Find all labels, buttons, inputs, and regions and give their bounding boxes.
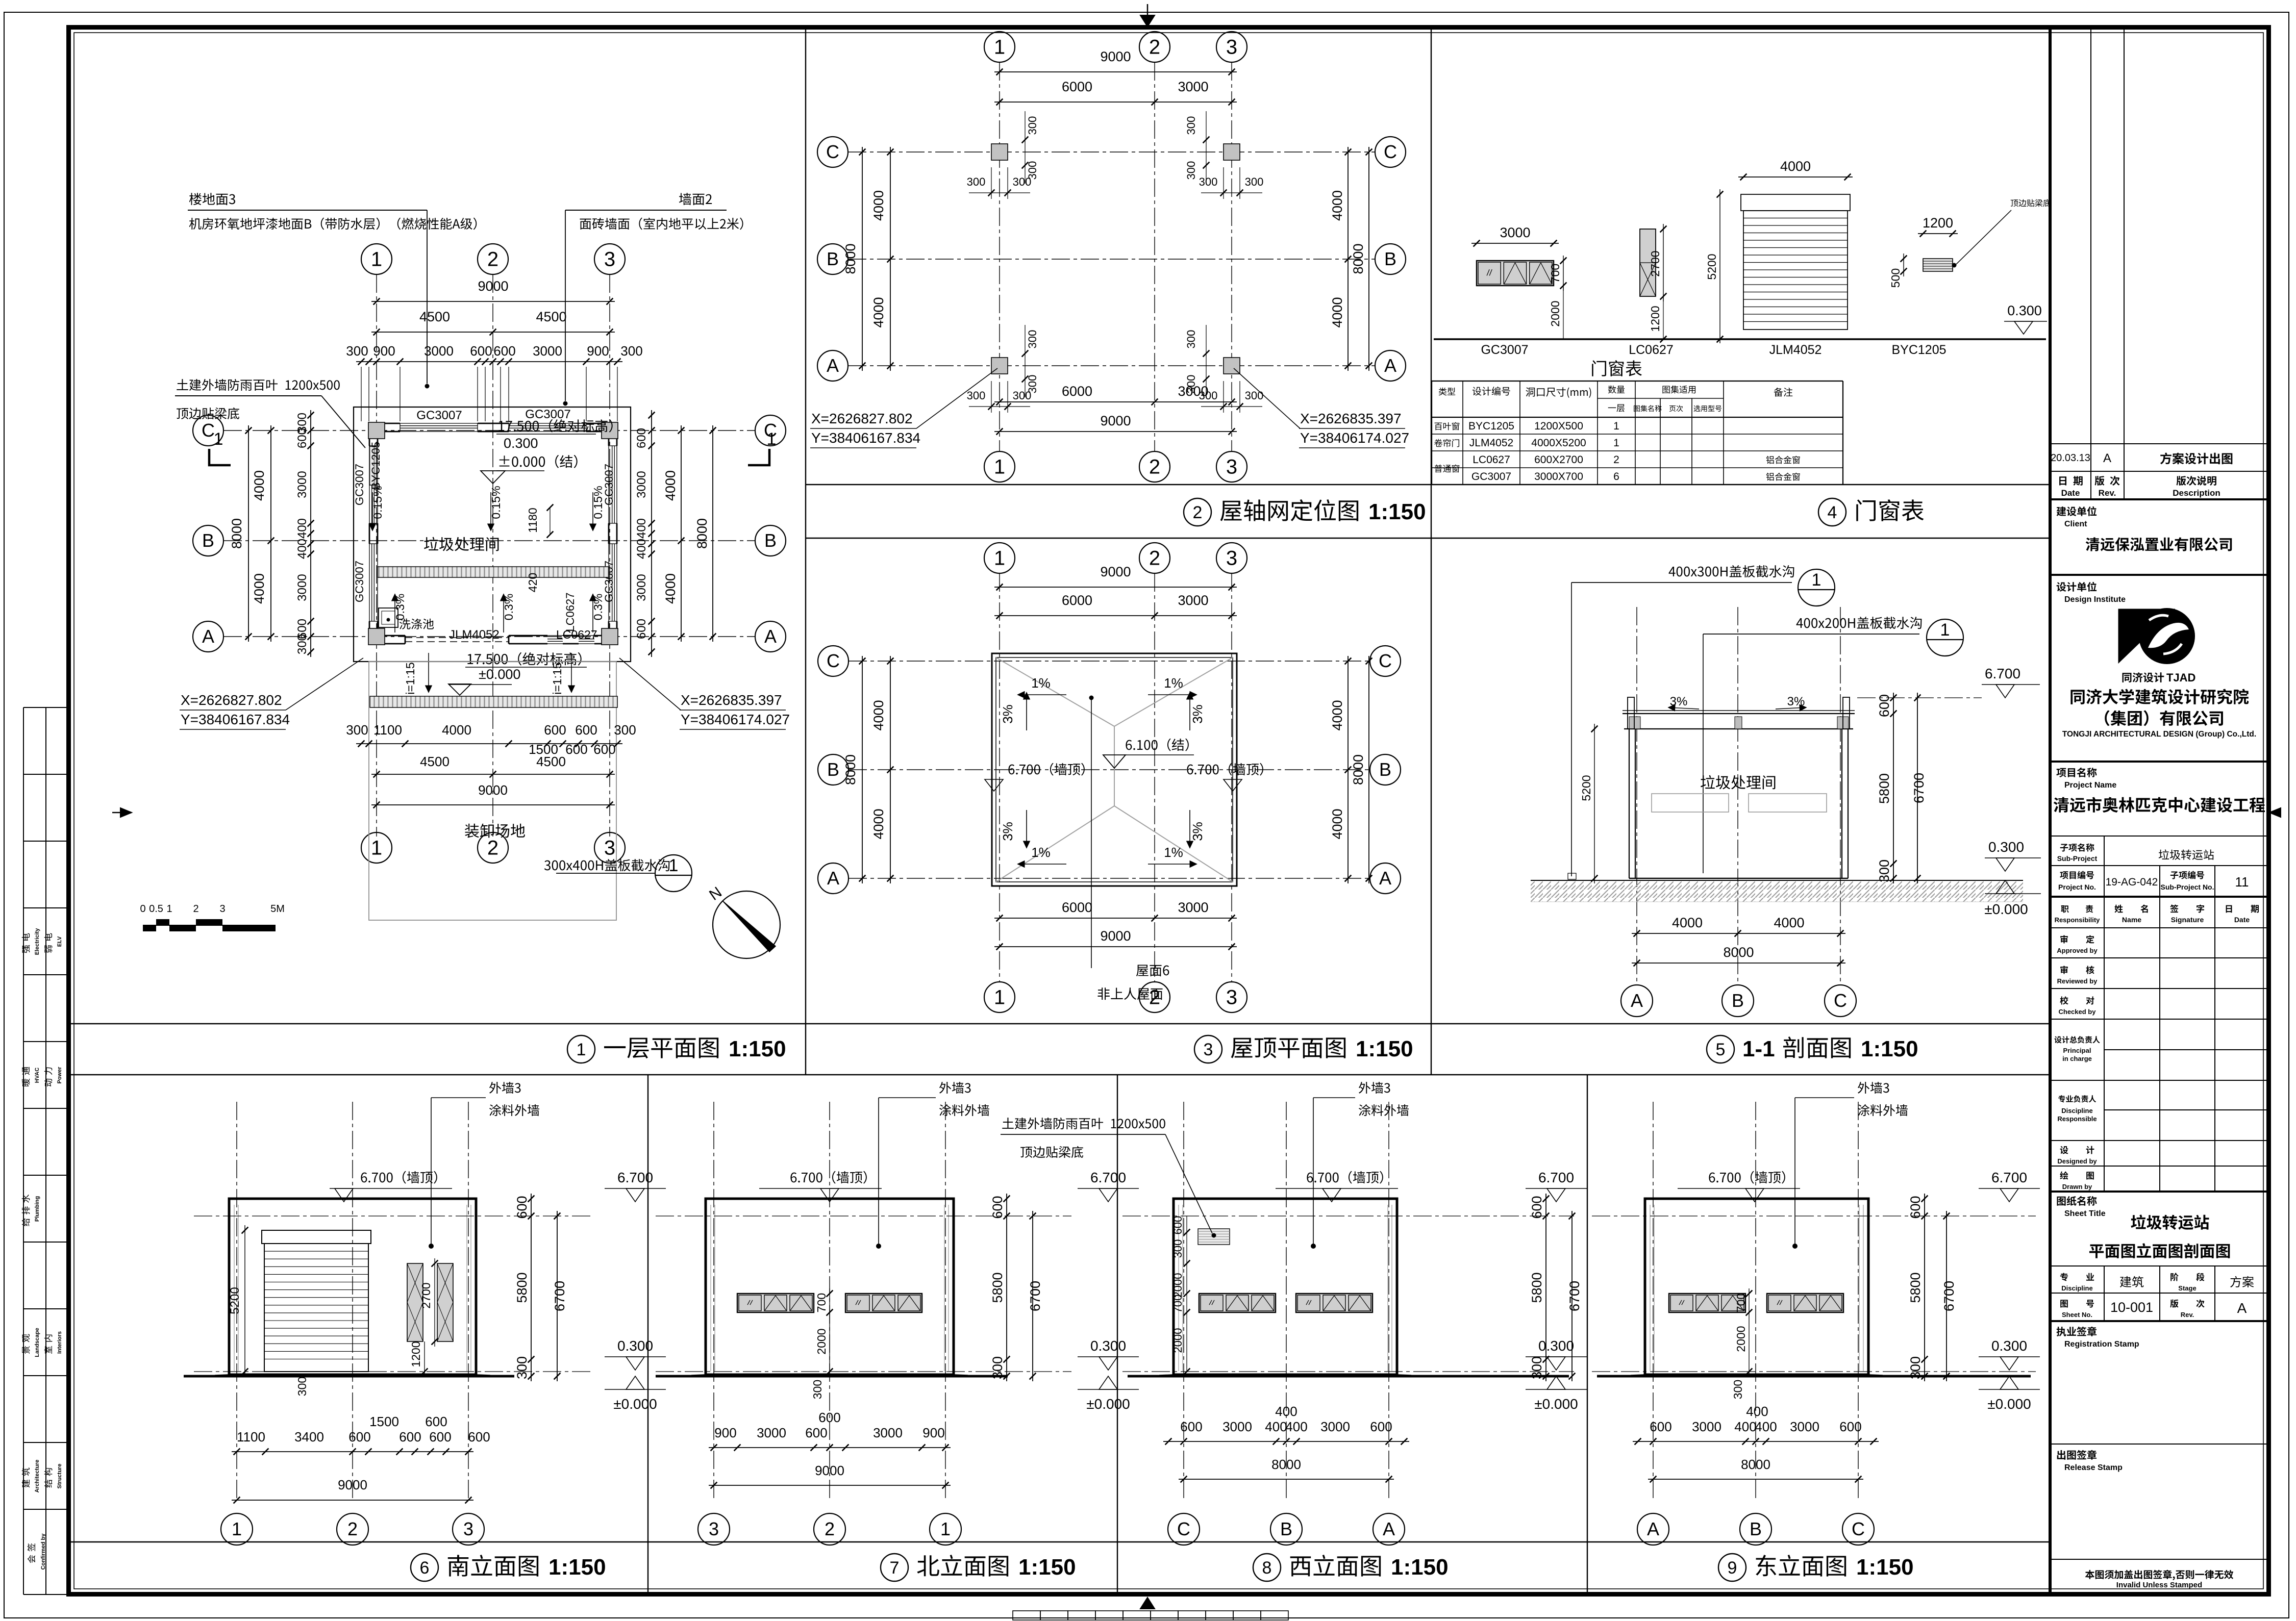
svg-text:600: 600 (805, 1425, 827, 1440)
svg-text:6000: 6000 (1062, 79, 1092, 94)
svg-text:3400: 3400 (294, 1429, 324, 1445)
svg-text:600: 600 (468, 1429, 490, 1445)
svg-text:Interiors: Interiors (57, 1331, 63, 1354)
svg-text:Landscape: Landscape (34, 1328, 40, 1357)
svg-text:Structure: Structure (57, 1464, 63, 1489)
svg-text:8000: 8000 (843, 754, 858, 785)
svg-text:B: B (202, 530, 214, 551)
svg-text:11: 11 (2235, 874, 2249, 890)
svg-text:B: B (1379, 759, 1391, 780)
svg-text:8000: 8000 (1723, 945, 1754, 960)
svg-text:4000: 4000 (1672, 915, 1703, 930)
svg-text:2: 2 (487, 837, 498, 859)
svg-text:4000: 4000 (1780, 159, 1811, 174)
svg-text:Design Institute: Design Institute (2064, 595, 2126, 604)
svg-text:JLM4052: JLM4052 (1469, 437, 1513, 449)
svg-text:9000: 9000 (478, 782, 508, 798)
svg-text:4000: 4000 (663, 573, 678, 604)
svg-text:3000: 3000 (757, 1425, 786, 1440)
svg-text:6: 6 (420, 1558, 430, 1578)
svg-text:300: 300 (811, 1380, 824, 1399)
svg-text:1%: 1% (1164, 845, 1183, 860)
svg-text:3: 3 (1226, 456, 1237, 478)
svg-text:300: 300 (614, 722, 636, 738)
svg-text:600: 600 (348, 1429, 370, 1445)
svg-text:HVAC: HVAC (34, 1068, 40, 1083)
svg-text:6700: 6700 (1567, 1281, 1582, 1311)
svg-text:Signature: Signature (2171, 916, 2204, 924)
svg-text:0.300: 0.300 (617, 1338, 653, 1354)
svg-text:Approved by: Approved by (2057, 947, 2098, 954)
svg-text:2000: 2000 (1734, 1326, 1748, 1352)
svg-text:Y=38406174.027: Y=38406174.027 (1300, 430, 1409, 446)
svg-text:8000: 8000 (843, 243, 858, 274)
svg-text:6: 6 (1613, 471, 1619, 483)
svg-text:4000: 4000 (663, 470, 678, 501)
svg-text:1: 1 (1613, 437, 1619, 449)
svg-text:Release Stamp: Release Stamp (2064, 1463, 2123, 1472)
svg-text:3000: 3000 (1178, 593, 1208, 608)
svg-text:3%: 3% (1190, 822, 1205, 841)
svg-text:1: 1 (1940, 620, 1950, 640)
svg-text:9000: 9000 (1100, 564, 1131, 579)
svg-text:7: 7 (890, 1558, 900, 1578)
svg-text:3: 3 (1226, 986, 1237, 1009)
svg-text:1%: 1% (1031, 675, 1051, 691)
svg-text:1500: 1500 (369, 1414, 399, 1429)
svg-text:±0.000: ±0.000 (1086, 1396, 1130, 1412)
svg-text:600: 600 (1171, 1216, 1184, 1235)
svg-text:9000: 9000 (815, 1463, 844, 1478)
svg-text:8000: 8000 (1351, 243, 1366, 274)
svg-text:Y=38406174.027: Y=38406174.027 (681, 712, 790, 727)
svg-text:5: 5 (1716, 1040, 1726, 1059)
svg-text:3: 3 (709, 1518, 719, 1539)
svg-text:Rev.: Rev. (2099, 488, 2116, 498)
svg-text:600: 600 (990, 1196, 1005, 1219)
svg-text:6.700: 6.700 (1985, 666, 2020, 681)
svg-text:1-1: 1-1 (1742, 1036, 1775, 1061)
svg-text:600: 600 (544, 722, 566, 738)
svg-text:6000: 6000 (1062, 900, 1092, 915)
svg-text:1: 1 (994, 36, 1005, 59)
svg-text:3000: 3000 (1790, 1419, 1819, 1434)
svg-text:4000: 4000 (871, 297, 886, 327)
svg-text:9000: 9000 (1100, 413, 1131, 428)
svg-text:TONGJI ARCHITECTURAL DESIGN (G: TONGJI ARCHITECTURAL DESIGN (Group) Co.,… (2062, 730, 2256, 739)
svg-text:600: 600 (470, 343, 492, 359)
svg-text:A: A (1647, 1518, 1659, 1539)
svg-text:in charge: in charge (2062, 1055, 2092, 1062)
svg-text:2000: 2000 (815, 1328, 828, 1354)
svg-text:700: 700 (1734, 1293, 1748, 1312)
svg-text:1%: 1% (1031, 845, 1051, 860)
svg-text:1: 1 (994, 456, 1005, 478)
svg-text:8000: 8000 (1741, 1457, 1770, 1472)
svg-text:C: C (1379, 650, 1392, 671)
svg-text:3%: 3% (1000, 704, 1015, 724)
svg-text:600: 600 (514, 1196, 530, 1219)
svg-text:1: 1 (940, 1518, 951, 1539)
svg-text:BYC1205: BYC1205 (1891, 343, 1946, 357)
svg-text:B: B (1280, 1518, 1292, 1539)
svg-text:C: C (827, 650, 840, 671)
svg-text:1:150: 1:150 (1391, 1555, 1449, 1580)
svg-text:300: 300 (1908, 1356, 1923, 1379)
svg-text:6.700: 6.700 (1538, 1170, 1574, 1185)
svg-text:4500: 4500 (536, 309, 566, 324)
svg-text:20.03.13: 20.03.13 (2051, 452, 2090, 464)
svg-text:600: 600 (399, 1429, 421, 1445)
svg-text:300: 300 (1185, 161, 1197, 180)
svg-text:2000: 2000 (1171, 1328, 1184, 1353)
svg-text:Sheet Title: Sheet Title (2064, 1209, 2106, 1218)
svg-text:5200: 5200 (228, 1287, 242, 1314)
svg-text:±0.000: ±0.000 (613, 1396, 657, 1412)
svg-text:Discipline: Discipline (2061, 1284, 2092, 1292)
svg-text:0.15%: 0.15% (489, 486, 503, 519)
svg-text:600: 600 (1180, 1419, 1202, 1434)
svg-text:600: 600 (1839, 1419, 1861, 1434)
svg-text:±0.000: ±0.000 (1534, 1396, 1578, 1412)
svg-text:10-001: 10-001 (2110, 1300, 2153, 1315)
svg-text:X=2626827.802: X=2626827.802 (181, 692, 282, 708)
svg-text:A: A (2237, 1300, 2247, 1316)
svg-text:Designed by: Designed by (2057, 1157, 2097, 1165)
svg-text:6000: 6000 (1062, 593, 1092, 608)
svg-text:700: 700 (1171, 1295, 1184, 1313)
svg-text:300: 300 (1171, 1239, 1184, 1258)
svg-text:1: 1 (232, 1518, 242, 1539)
svg-text:300: 300 (1877, 859, 1892, 882)
svg-text:Invalid Unless Stamped: Invalid Unless Stamped (2116, 1581, 2202, 1589)
svg-text:LC0627: LC0627 (564, 592, 577, 631)
svg-text:Rev.: Rev. (2181, 1311, 2194, 1319)
svg-text:1:150: 1:150 (1861, 1036, 1918, 1061)
svg-text:GC3007: GC3007 (1481, 343, 1528, 357)
svg-text:Discipline: Discipline (2061, 1107, 2092, 1115)
svg-text:GC3007: GC3007 (1471, 471, 1511, 483)
svg-text:600: 600 (1370, 1419, 1392, 1434)
svg-text:2700: 2700 (419, 1282, 433, 1308)
svg-text:LC0627: LC0627 (1629, 343, 1674, 357)
svg-text:1: 1 (371, 837, 382, 859)
svg-text:5M: 5M (270, 903, 285, 915)
svg-text:Project Name: Project Name (2064, 781, 2116, 790)
svg-text:5800: 5800 (514, 1272, 530, 1303)
svg-text:Date: Date (2234, 916, 2250, 924)
svg-text:1:150: 1:150 (1856, 1555, 1914, 1580)
svg-text:A: A (1379, 868, 1391, 889)
svg-text:Sheet No.: Sheet No. (2062, 1311, 2092, 1319)
svg-text:1200X500: 1200X500 (1534, 420, 1583, 432)
svg-text:300: 300 (514, 1356, 530, 1379)
svg-text:3000: 3000 (635, 574, 648, 601)
svg-text:300: 300 (1185, 116, 1197, 135)
svg-text:2: 2 (487, 248, 498, 271)
svg-text:900: 900 (373, 343, 395, 359)
svg-text:300: 300 (346, 722, 368, 738)
svg-text:1: 1 (767, 429, 777, 449)
svg-text:2000: 2000 (1171, 1273, 1184, 1298)
svg-text:4000: 4000 (871, 808, 886, 839)
svg-text:Confirmed by: Confirmed by (40, 1533, 46, 1570)
svg-text:600: 600 (593, 742, 615, 757)
svg-text:B: B (1750, 1518, 1762, 1539)
svg-text:3: 3 (463, 1518, 473, 1539)
svg-text:Sub-Project No.: Sub-Project No. (2160, 883, 2214, 891)
svg-text:1180: 1180 (526, 508, 539, 533)
svg-text:400: 400 (635, 539, 648, 559)
svg-text:0.300: 0.300 (1090, 1338, 1126, 1354)
svg-text:4500: 4500 (536, 754, 566, 769)
svg-text:Drawn by: Drawn by (2062, 1183, 2092, 1191)
svg-text:B: B (827, 248, 839, 269)
svg-text:9: 9 (1728, 1558, 1737, 1578)
svg-text:1:150: 1:150 (1368, 499, 1426, 524)
svg-text:3: 3 (604, 248, 615, 271)
svg-text:4000: 4000 (1330, 190, 1345, 221)
svg-text:±0.000: ±0.000 (479, 667, 520, 682)
svg-text:3000: 3000 (1500, 225, 1530, 240)
svg-text:3000: 3000 (1178, 384, 1208, 399)
svg-text:X=2626835.397: X=2626835.397 (681, 692, 782, 708)
svg-text:300: 300 (295, 1377, 309, 1396)
svg-text:300: 300 (620, 343, 642, 359)
svg-text:1200: 1200 (409, 1341, 422, 1367)
svg-text:Architecture: Architecture (34, 1460, 40, 1493)
svg-text:B: B (764, 530, 777, 551)
svg-text:9000: 9000 (1100, 928, 1131, 944)
svg-text:8000: 8000 (1271, 1457, 1301, 1472)
svg-text:0.300: 0.300 (504, 436, 538, 451)
svg-text:8000: 8000 (1351, 754, 1366, 785)
svg-text:0.300: 0.300 (2007, 303, 2042, 318)
svg-text:JLM4052: JLM4052 (449, 628, 500, 642)
svg-text:0.5: 0.5 (149, 903, 163, 915)
svg-text:4000: 4000 (1330, 808, 1345, 839)
svg-text:400: 400 (1755, 1419, 1777, 1434)
svg-text:±0.000: ±0.000 (1987, 1396, 2031, 1412)
svg-text:2: 2 (1149, 36, 1160, 59)
svg-text:600: 600 (1650, 1419, 1671, 1434)
svg-text:X=2626835.397: X=2626835.397 (1300, 411, 1402, 426)
svg-text:GC3007: GC3007 (416, 409, 462, 422)
svg-text:1: 1 (577, 1040, 586, 1059)
svg-text:Sub-Project: Sub-Project (2057, 854, 2098, 863)
svg-text:300: 300 (1245, 175, 1264, 188)
svg-text:Y=38406167.834: Y=38406167.834 (181, 712, 290, 727)
svg-text:400: 400 (1265, 1419, 1287, 1434)
svg-text:9000: 9000 (1100, 49, 1131, 64)
svg-text:1:150: 1:150 (1018, 1555, 1076, 1580)
svg-text:LC0627: LC0627 (556, 628, 597, 641)
svg-text:4000: 4000 (871, 190, 886, 221)
svg-text:4000: 4000 (871, 700, 886, 730)
svg-text:600: 600 (635, 428, 648, 448)
svg-text:3000: 3000 (1692, 1419, 1721, 1434)
svg-text:400: 400 (1746, 1404, 1768, 1419)
svg-text:600: 600 (635, 619, 648, 639)
svg-text:3000: 3000 (873, 1425, 903, 1440)
svg-text:C: C (1177, 1518, 1190, 1539)
svg-text:A: A (764, 626, 777, 647)
svg-text:5800: 5800 (1908, 1272, 1923, 1303)
svg-text:ELV: ELV (57, 936, 63, 947)
svg-text:600: 600 (818, 1410, 840, 1425)
svg-text:3000: 3000 (295, 471, 309, 498)
svg-text:6.700: 6.700 (617, 1170, 653, 1185)
svg-text:300: 300 (1013, 389, 1032, 402)
svg-text:1%: 1% (1164, 675, 1183, 691)
svg-text:4000: 4000 (1330, 700, 1345, 730)
svg-text:600: 600 (493, 343, 515, 359)
svg-text:8000: 8000 (229, 518, 244, 549)
svg-text:700: 700 (1549, 264, 1562, 283)
svg-text:600: 600 (565, 742, 587, 757)
svg-text:Plumbing: Plumbing (34, 1196, 40, 1222)
svg-text:1: 1 (371, 248, 382, 271)
svg-text:3: 3 (604, 837, 615, 859)
svg-text:1: 1 (1613, 420, 1619, 432)
svg-text:C: C (202, 420, 215, 441)
svg-text:B: B (827, 759, 839, 780)
svg-text:5200: 5200 (1705, 254, 1718, 280)
svg-text:6000: 6000 (1062, 384, 1092, 399)
svg-text:2: 2 (193, 903, 198, 915)
svg-text:1200: 1200 (1923, 215, 1953, 231)
svg-text:B: B (1384, 248, 1396, 269)
svg-text:300: 300 (1245, 389, 1264, 402)
svg-text:4000: 4000 (442, 722, 471, 738)
svg-text:3000: 3000 (1178, 900, 1208, 915)
svg-text:300: 300 (1199, 175, 1218, 188)
svg-text:5800: 5800 (1877, 773, 1892, 804)
svg-text:3%: 3% (1190, 704, 1205, 724)
svg-text:4000: 4000 (1774, 915, 1804, 930)
svg-text:3000: 3000 (635, 471, 648, 498)
svg-text:3000: 3000 (295, 574, 309, 601)
svg-text:Electricity: Electricity (34, 928, 40, 955)
svg-text:TJAD: TJAD (2166, 671, 2195, 684)
svg-text:2: 2 (347, 1518, 358, 1539)
svg-text:C: C (1852, 1518, 1865, 1539)
svg-text:900: 900 (587, 343, 609, 359)
svg-text:Y=38406167.834: Y=38406167.834 (811, 430, 920, 446)
svg-text:6.700: 6.700 (1991, 1170, 2027, 1185)
svg-text:1: 1 (214, 429, 223, 449)
svg-text:1: 1 (1812, 570, 1821, 590)
svg-text:LC0627: LC0627 (1473, 454, 1510, 466)
svg-text:4000: 4000 (1330, 297, 1345, 327)
svg-text:6700: 6700 (1028, 1281, 1043, 1311)
svg-text:300: 300 (990, 1356, 1005, 1379)
svg-text:300: 300 (1026, 116, 1039, 135)
svg-text:8: 8 (1262, 1558, 1272, 1578)
svg-text:300: 300 (295, 634, 309, 654)
svg-text:9000: 9000 (338, 1477, 367, 1492)
svg-text:C: C (1834, 990, 1847, 1011)
svg-text:Description: Description (2173, 488, 2220, 498)
svg-text:6700: 6700 (1911, 773, 1927, 803)
svg-text:300: 300 (967, 175, 986, 188)
svg-text:420: 420 (526, 573, 539, 592)
svg-text:A: A (1631, 990, 1643, 1011)
svg-text:JLM4052: JLM4052 (1769, 343, 1822, 357)
svg-text:2: 2 (1193, 503, 1203, 522)
svg-text:3: 3 (219, 903, 225, 915)
svg-text:400: 400 (1275, 1404, 1297, 1419)
svg-text:0.15%: 0.15% (371, 486, 384, 519)
svg-text:±0.000: ±0.000 (1984, 901, 2028, 917)
svg-text:5800: 5800 (1529, 1272, 1544, 1303)
svg-text:1:150: 1:150 (1356, 1036, 1413, 1061)
svg-text:400: 400 (295, 518, 309, 539)
svg-text:9000: 9000 (478, 278, 508, 294)
svg-text:0.300: 0.300 (1988, 839, 2024, 855)
svg-text:300: 300 (1731, 1380, 1744, 1399)
svg-text:3000: 3000 (1178, 79, 1208, 94)
svg-text:0.300: 0.300 (1991, 1338, 2027, 1354)
svg-text:A: A (827, 868, 839, 889)
svg-text:Reviewed by: Reviewed by (2057, 977, 2098, 985)
svg-text:A: A (1383, 1518, 1395, 1539)
svg-text:Checked by: Checked by (2059, 1008, 2097, 1016)
svg-text:X=2626827.802: X=2626827.802 (811, 411, 913, 426)
svg-text:600: 600 (575, 722, 597, 738)
svg-text:700: 700 (815, 1293, 828, 1312)
svg-text:2700: 2700 (1649, 250, 1662, 276)
svg-text:A: A (827, 355, 839, 376)
svg-text:Power: Power (57, 1067, 63, 1084)
svg-text:Responsibility: Responsibility (2055, 916, 2101, 924)
svg-text:3: 3 (1204, 1040, 1213, 1059)
svg-text:0.300: 0.300 (1538, 1338, 1574, 1354)
svg-text:Principal: Principal (2063, 1047, 2091, 1054)
svg-text:600: 600 (429, 1429, 451, 1445)
svg-text:0.15%: 0.15% (591, 486, 605, 519)
svg-text:1:150: 1:150 (729, 1036, 786, 1061)
svg-text:4000: 4000 (252, 573, 267, 604)
svg-text:3000: 3000 (1320, 1419, 1350, 1434)
svg-text:600: 600 (1908, 1196, 1923, 1219)
svg-text:1100: 1100 (373, 722, 402, 738)
svg-text:600: 600 (1529, 1196, 1544, 1219)
svg-text:Project No.: Project No. (2058, 883, 2096, 891)
svg-text:3000X700: 3000X700 (1534, 471, 1583, 483)
svg-text:4: 4 (1828, 503, 1837, 522)
svg-text:3%: 3% (1000, 822, 1015, 841)
svg-text:900: 900 (714, 1425, 736, 1440)
svg-text:Name: Name (2122, 916, 2141, 924)
svg-text:400: 400 (295, 539, 309, 559)
svg-text:2: 2 (1149, 547, 1160, 570)
svg-text:300: 300 (346, 343, 368, 359)
svg-text:300: 300 (1529, 1356, 1544, 1379)
svg-text:0: 0 (140, 903, 145, 915)
svg-text:Responsible: Responsible (2057, 1115, 2097, 1123)
svg-text:2000: 2000 (1549, 300, 1562, 326)
svg-text:BYC1205: BYC1205 (369, 442, 382, 490)
svg-text:2: 2 (1149, 456, 1160, 478)
svg-text:600X2700: 600X2700 (1534, 454, 1583, 466)
svg-text:B: B (1732, 990, 1744, 1011)
svg-text:C: C (826, 141, 839, 162)
svg-text:BYC1205: BYC1205 (1468, 420, 1514, 432)
svg-text:3000: 3000 (1222, 1419, 1252, 1434)
svg-text:300: 300 (967, 389, 986, 402)
svg-text:1100: 1100 (237, 1429, 265, 1445)
